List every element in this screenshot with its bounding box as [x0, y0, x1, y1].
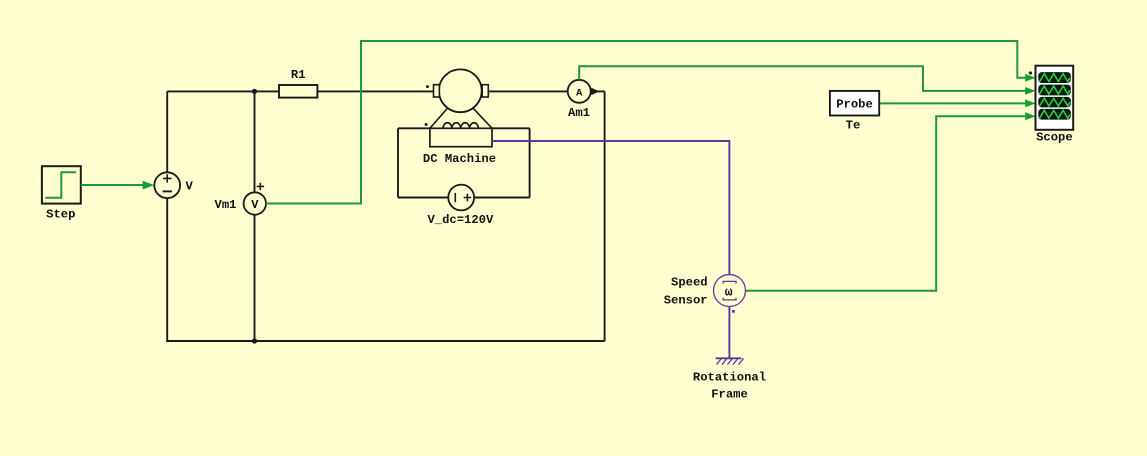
- rotational frame ground: [693, 358, 766, 401]
- arrowhead scope input 1: [1025, 74, 1035, 82]
- right slant to field: [473, 108, 492, 128]
- svg-text:Rotational: Rotational: [693, 370, 766, 384]
- scope screen 1: [1038, 72, 1071, 83]
- ammeter Am1: [568, 80, 591, 120]
- wire V source top: [166, 91, 168, 172]
- resistor R1: [279, 68, 317, 98]
- svg-text:DC Machine: DC Machine: [423, 152, 496, 166]
- right brush: [482, 85, 488, 97]
- svg-text:Te: Te: [846, 119, 861, 133]
- polarity dot below sensor: [732, 310, 735, 313]
- svg-text:Step: Step: [46, 208, 75, 222]
- voltmeter Vm1: [215, 183, 267, 215]
- speed sensor: [664, 275, 746, 308]
- scope marker dot: [1029, 71, 1032, 74]
- junction top at Vm1 branch: [252, 89, 257, 94]
- arrowhead at V input: [143, 181, 155, 190]
- wire from Am1 to right vertical: [591, 90, 605, 92]
- junction bottom at Vm1 branch: [252, 338, 257, 343]
- armature polarity dot: [426, 85, 429, 88]
- scope block Scope: [1029, 66, 1073, 145]
- field box: [430, 128, 492, 146]
- probe block Probe: [830, 91, 879, 133]
- wire field loop top right stub: [492, 127, 530, 129]
- svg-text:V: V: [251, 198, 259, 212]
- wire bottom horizontal: [166, 340, 604, 342]
- svg-text:Am1: Am1: [568, 106, 590, 120]
- wire from R1 to DC machine left brush: [317, 90, 433, 92]
- wire field loop left vertical: [397, 128, 399, 197]
- left slant to field: [430, 108, 448, 128]
- arrowhead scope input 2: [1025, 87, 1035, 95]
- wire right vertical: [604, 91, 606, 341]
- arrowhead scope input 4: [1025, 112, 1035, 120]
- top shaft mark: [723, 281, 736, 283]
- svg-text:Scope: Scope: [1036, 130, 1073, 144]
- arrowhead scope input 3: [1025, 100, 1035, 108]
- svg-text:V: V: [186, 180, 194, 194]
- wire field loop right vertical: [529, 128, 531, 197]
- wire signal Am1 to Scope input 2: [579, 66, 1026, 91]
- wire signal Vm1 to Scope input 1: [266, 41, 1026, 204]
- scope screen 3: [1038, 97, 1071, 108]
- svg-text:ω: ω: [725, 285, 733, 300]
- wire Vm1 bottom: [254, 215, 256, 341]
- svg-text:R1: R1: [291, 68, 306, 82]
- svg-text:Vm1: Vm1: [215, 198, 237, 212]
- wire V source bottom: [166, 198, 168, 341]
- wire signal Probe to Scope input 3: [879, 102, 1026, 104]
- arrowhead on Am1 output wire: [591, 88, 599, 96]
- wire field loop bottom right: [474, 197, 529, 199]
- wire rotational Speed Sensor to ground: [728, 306, 730, 358]
- dc voltage source V_dc=120V: [427, 185, 494, 227]
- svg-text:Sensor: Sensor: [664, 293, 708, 307]
- wire from DC machine right brush to Am1: [488, 90, 567, 92]
- wire Vm1 top: [254, 91, 256, 192]
- wire signal Step to V: [81, 184, 144, 186]
- step source Step: [42, 166, 81, 221]
- field polarity dot: [425, 123, 428, 126]
- svg-text:Frame: Frame: [711, 387, 748, 401]
- field coil L: [443, 123, 478, 129]
- scope screen 4: [1038, 109, 1071, 120]
- svg-text:Probe: Probe: [836, 98, 873, 112]
- wire field loop bottom left: [398, 197, 448, 199]
- voltage source V: [154, 172, 193, 198]
- left brush: [434, 85, 440, 97]
- wire signal Speed Sensor to Scope input 4: [746, 116, 1027, 291]
- armature circle: [439, 69, 482, 112]
- svg-text:V_dc=120V: V_dc=120V: [427, 213, 494, 227]
- DC machine U1: [423, 69, 496, 166]
- svg-text:A: A: [576, 88, 583, 100]
- bottom shaft mark: [723, 298, 736, 300]
- wire rotational DC machine to Speed Sensor: [492, 141, 729, 275]
- wire top horizontal from V to R1: [167, 90, 279, 92]
- scope screen 2: [1038, 85, 1071, 96]
- wire field loop left stub: [398, 127, 430, 129]
- svg-text:Speed: Speed: [671, 276, 708, 290]
